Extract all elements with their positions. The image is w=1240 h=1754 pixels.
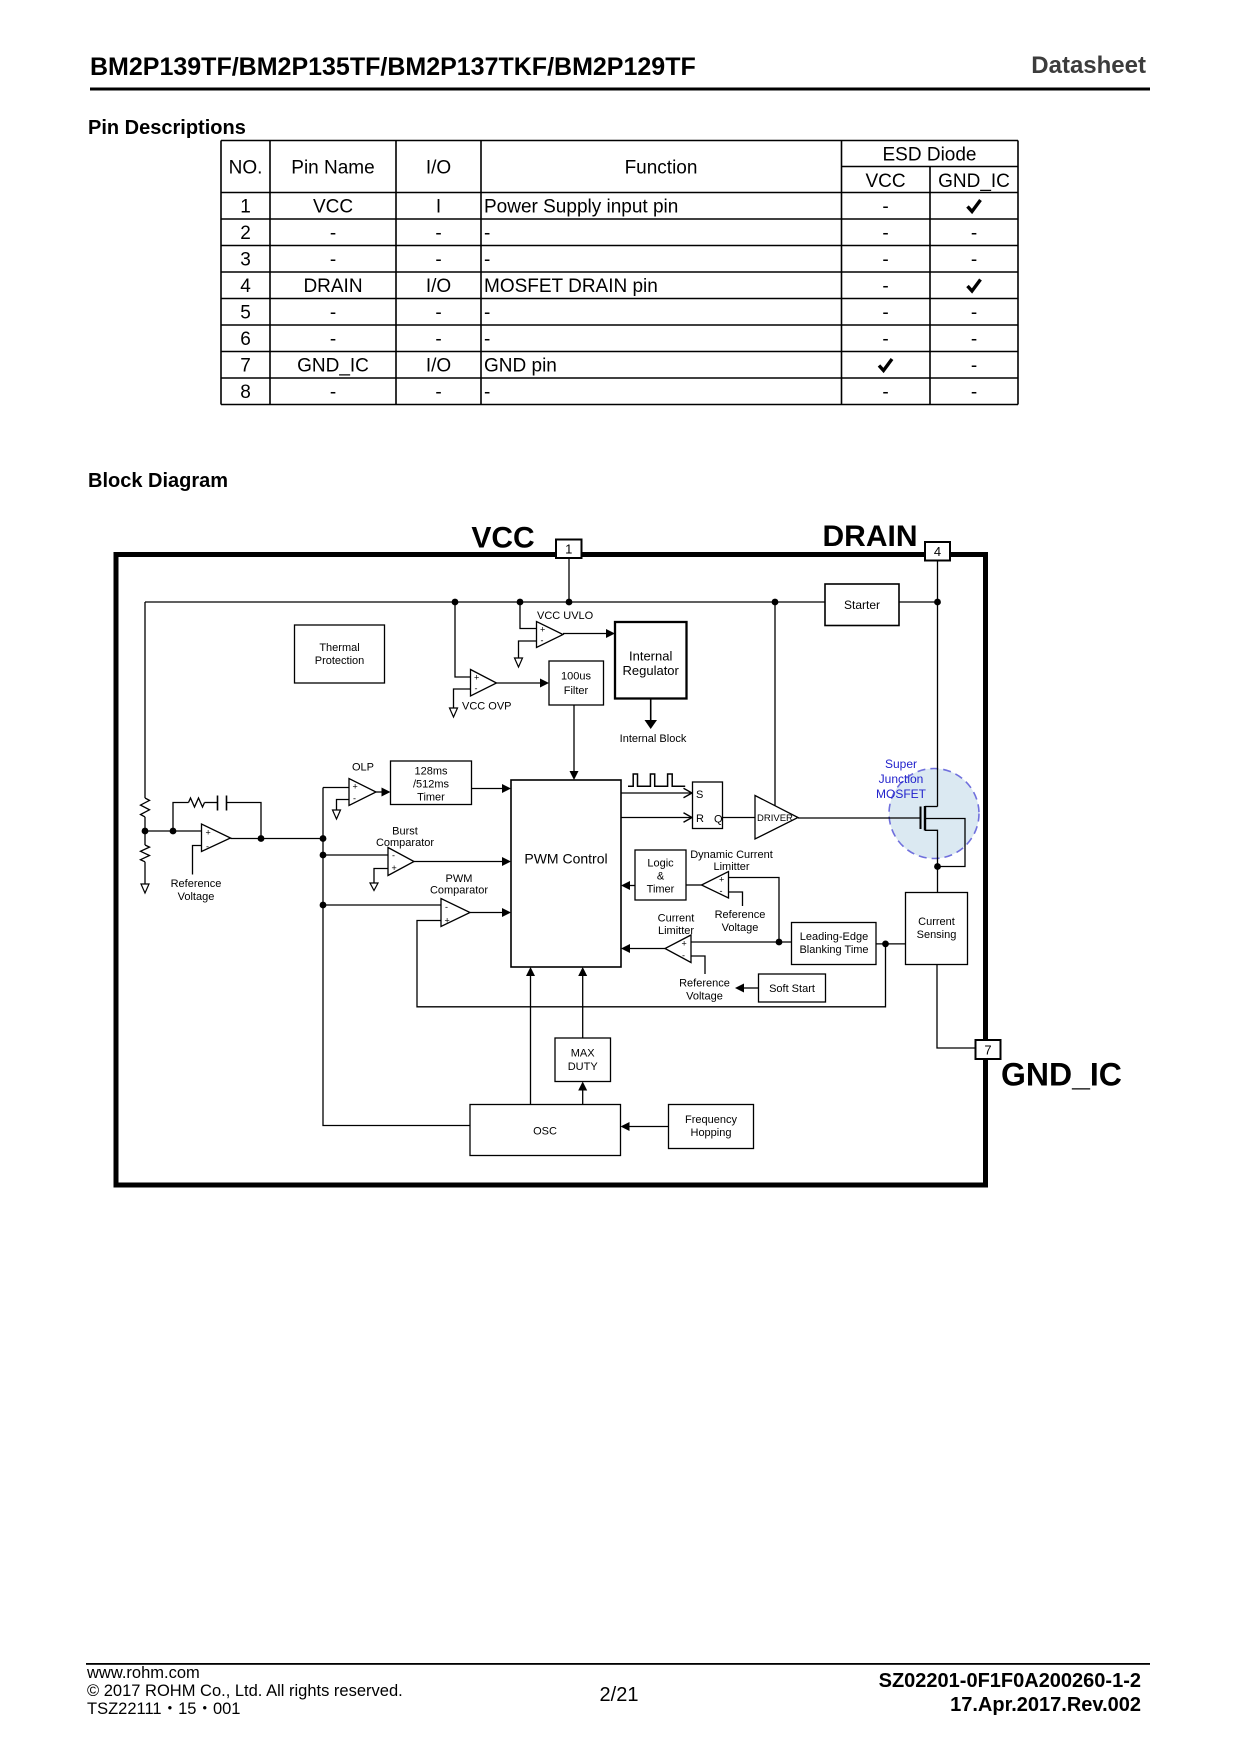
wire timer to PWM Control	[472, 784, 512, 793]
wire current sensing to pin7	[937, 965, 976, 1049]
svg-text:Starter: Starter	[844, 598, 880, 612]
svg-text:-: -	[435, 223, 441, 244]
svg-text:Internal: Internal	[629, 649, 672, 664]
vertical feedback net	[320, 788, 470, 1126]
svg-text:MOSFET: MOSFET	[876, 787, 927, 801]
svg-text:Logic: Logic	[647, 858, 674, 870]
svg-text:Super: Super	[885, 757, 917, 771]
svg-text:&: &	[657, 871, 665, 883]
svg-text:Limitter: Limitter	[658, 925, 694, 937]
wire current limiter plus input	[691, 939, 792, 946]
svg-text:Thermal: Thermal	[319, 642, 359, 654]
svg-text:-: -	[882, 250, 888, 271]
svg-text:Voltage: Voltage	[722, 922, 759, 934]
svg-text:-: -	[682, 951, 685, 961]
svg-text:Reference: Reference	[171, 878, 222, 890]
svg-text:-: -	[475, 684, 478, 694]
wire leading edge to current sensing	[876, 941, 906, 948]
128ms/512ms Timer block	[391, 761, 472, 805]
GND_IC pad label	[1001, 1057, 1122, 1093]
svg-text:VCC: VCC	[313, 197, 353, 218]
pin 7	[976, 1040, 1001, 1059]
Thermal Protection block	[295, 625, 385, 683]
comparator Dynamic Current Limitter	[690, 849, 773, 898]
error amp reference voltage input	[171, 846, 222, 904]
svg-text:-: -	[882, 329, 888, 350]
svg-text:-: -	[330, 223, 336, 244]
svg-text:Pin Name: Pin Name	[291, 158, 374, 179]
node MOSFET source junction	[934, 863, 941, 870]
svg-text:-: -	[720, 886, 723, 896]
wire burst plus to arrow	[370, 869, 388, 891]
wire burst out to PWM Control	[414, 857, 511, 866]
svg-text:-: -	[330, 250, 336, 271]
svg-text:-: -	[971, 250, 977, 271]
svg-text:DUTY: DUTY	[568, 1061, 599, 1073]
svg-text:Protection: Protection	[315, 655, 365, 667]
svg-text:GND_IC: GND_IC	[938, 171, 1010, 192]
PWM pulse symbol	[628, 774, 685, 786]
svg-text:Comparator: Comparator	[376, 837, 434, 849]
svg-text:Internal Block: Internal Block	[620, 733, 687, 745]
svg-text:-: -	[435, 329, 441, 350]
svg-text:-: -	[882, 223, 888, 244]
svg-text:100us: 100us	[561, 671, 591, 683]
svg-text:Reference: Reference	[679, 978, 730, 990]
svg-text:Reference: Reference	[715, 909, 766, 921]
svg-text:Limitter: Limitter	[713, 861, 749, 873]
svg-text:-: -	[882, 303, 888, 324]
svg-text:Blanking Time: Blanking Time	[799, 944, 868, 956]
wire dynamic limiter plus input	[729, 878, 780, 943]
svg-text:Pin Descriptions: Pin Descriptions	[88, 117, 246, 139]
wire Internal Regulator to Internal Block	[620, 699, 687, 746]
comparator OLP	[349, 762, 376, 806]
svg-text:-: -	[484, 382, 490, 403]
SR latch U	[693, 782, 724, 829]
svg-text:4: 4	[240, 276, 251, 297]
svg-text:-: -	[206, 842, 209, 852]
svg-text:Comparator: Comparator	[430, 885, 488, 897]
svg-text:Dynamic Current: Dynamic Current	[690, 849, 773, 861]
svg-text:VCC: VCC	[471, 522, 534, 555]
pin 1	[556, 540, 582, 559]
IC outer boundary box	[116, 555, 986, 1186]
svg-text:Q: Q	[714, 814, 723, 826]
svg-text:8: 8	[240, 382, 251, 403]
svg-text:TSZ22111・15・001: TSZ22111・15・001	[87, 1700, 240, 1718]
svg-text:-: -	[330, 329, 336, 350]
bus junction dots	[452, 599, 941, 606]
footer left text	[86, 1664, 403, 1718]
wire FB to error amp	[145, 830, 202, 832]
svg-text:-: -	[484, 250, 490, 271]
svg-text:17.Apr.2017.Rev.002: 17.Apr.2017.Rev.002	[950, 1694, 1141, 1716]
comparator Current Limitter	[658, 913, 695, 963]
svg-text:VCC OVP: VCC OVP	[462, 701, 512, 713]
100us Filter block	[549, 661, 604, 705]
svg-text:GND_IC: GND_IC	[1001, 1057, 1122, 1093]
Soft Start block	[759, 974, 826, 1002]
svg-text:-: -	[353, 794, 356, 804]
svg-text:-: -	[445, 902, 448, 912]
svg-text:-: -	[330, 303, 336, 324]
svg-text:ESD Diode: ESD Diode	[883, 145, 977, 166]
svg-text:+: +	[445, 916, 450, 926]
MOSFET Q1	[921, 806, 966, 893]
svg-text:MOSFET DRAIN pin: MOSFET DRAIN pin	[484, 276, 658, 297]
svg-text:www.rohm.com: www.rohm.com	[86, 1664, 200, 1682]
Internal Regulator block	[615, 622, 687, 699]
svg-text:+: +	[353, 782, 358, 792]
wire OLP minus to arrow	[333, 800, 350, 820]
comparator Burst	[376, 826, 434, 876]
svg-text:-: -	[435, 382, 441, 403]
svg-text:VCC: VCC	[865, 171, 905, 192]
svg-text:Block Diagram: Block Diagram	[88, 470, 228, 492]
svg-text:DRAIN: DRAIN	[823, 520, 918, 553]
wire frequency hopping to OSC	[621, 1122, 669, 1131]
svg-text:Datasheet: Datasheet	[1031, 52, 1146, 79]
wire latch Q to driver	[723, 817, 756, 819]
wire net to PWM comparator minus	[323, 904, 441, 906]
svg-text:-: -	[882, 197, 888, 218]
super junction MOSFET highlight circle	[889, 769, 979, 859]
wire UVLO minus input to arrow	[515, 641, 537, 667]
svg-text:R: R	[696, 813, 704, 825]
pin descriptions table grid	[221, 141, 1018, 405]
pin descriptions table body text	[240, 197, 977, 404]
wire Logic Timer to PWM Control	[621, 881, 635, 890]
wire PWM Control to latch S	[621, 788, 692, 797]
MAX DUTY block	[555, 1038, 611, 1082]
feedback divider resistor chain	[141, 602, 150, 884]
svg-text:S: S	[696, 789, 703, 801]
header title	[90, 53, 696, 81]
svg-text:/512ms: /512ms	[413, 779, 450, 791]
node FB junction	[142, 828, 177, 835]
footer page number	[600, 1684, 639, 1706]
svg-text:-: -	[541, 636, 544, 646]
svg-text:PWM: PWM	[446, 873, 473, 885]
Starter block	[825, 584, 899, 626]
svg-text:I/O: I/O	[426, 356, 451, 377]
super junction MOSFET label	[876, 757, 927, 801]
VCC bus wire	[145, 601, 938, 603]
wire net to burst minus	[323, 854, 388, 856]
pin descriptions table header text	[229, 145, 1010, 193]
svg-text:-: -	[330, 382, 336, 403]
svg-text:Timer: Timer	[417, 792, 445, 804]
svg-text:Timer: Timer	[647, 884, 675, 896]
svg-text:Leading-Edge: Leading-Edge	[800, 931, 869, 943]
svg-text:DRAIN: DRAIN	[303, 276, 362, 297]
svg-text:-: -	[882, 276, 888, 297]
svg-text:Burst: Burst	[392, 826, 418, 838]
svg-text:Function: Function	[625, 158, 698, 179]
wire MAX DUTY to PWM Control	[578, 967, 587, 1038]
wire OSC to MAX DUTY	[578, 1082, 587, 1105]
svg-text:GND pin: GND pin	[484, 356, 557, 377]
wire OLP out to timer	[376, 788, 391, 797]
svg-text:DRIVER: DRIVER	[757, 813, 793, 824]
svg-text:+: +	[474, 673, 479, 683]
svg-text:-: -	[435, 303, 441, 324]
wire OVP minus input to arrow	[450, 689, 471, 717]
divider ground arrow	[141, 884, 149, 893]
svg-text:Voltage: Voltage	[178, 891, 215, 903]
svg-text:-: -	[971, 382, 977, 403]
svg-text:Filter: Filter	[564, 685, 589, 697]
wire current limiter minus to reference	[679, 956, 730, 1003]
wire bus to UVLO plus input	[520, 602, 537, 629]
svg-text:OSC: OSC	[533, 1126, 557, 1138]
svg-text:Current: Current	[918, 916, 955, 928]
svg-text:2/21: 2/21	[600, 1684, 639, 1706]
header rule	[90, 88, 1150, 91]
OSC block	[470, 1105, 621, 1156]
svg-text:I/O: I/O	[426, 276, 451, 297]
svg-text:SZ02201-0F1F0A200260-1-2: SZ02201-0F1F0A200260-1-2	[879, 1670, 1141, 1692]
svg-text:OLP: OLP	[352, 762, 374, 774]
wire current sense to PWM comparator plus	[417, 921, 886, 1007]
svg-text:-: -	[971, 329, 977, 350]
svg-text:Regulator: Regulator	[623, 663, 680, 678]
feedback RC network	[173, 796, 261, 839]
svg-text:Soft Start: Soft Start	[769, 983, 815, 995]
svg-text:© 2017 ROHM Co., Ltd. All righ: © 2017 ROHM Co., Ltd. All rights reserve…	[87, 1682, 403, 1700]
svg-text:-: -	[435, 250, 441, 271]
svg-text:Hopping: Hopping	[691, 1127, 732, 1139]
footer rule	[86, 1663, 1150, 1665]
svg-text:7: 7	[984, 1043, 991, 1058]
svg-text:2: 2	[240, 223, 251, 244]
svg-text:NO.: NO.	[229, 158, 263, 179]
wire dynamic limiter minus to reference	[715, 892, 766, 934]
svg-text:PWM Control: PWM Control	[524, 851, 607, 867]
header Datasheet label	[1031, 52, 1146, 79]
svg-text:Voltage: Voltage	[686, 991, 723, 1003]
wire OSC to PWM Control	[526, 967, 535, 1105]
svg-text:1: 1	[240, 197, 251, 218]
svg-text:3: 3	[240, 250, 251, 271]
pin 4	[925, 542, 950, 561]
wire UVLO out to Internal Regulator	[563, 629, 615, 638]
svg-text:4: 4	[934, 544, 941, 559]
svg-text:-: -	[882, 382, 888, 403]
Frequency Hopping block	[669, 1105, 754, 1149]
svg-text:128ms: 128ms	[414, 766, 448, 778]
footer document number	[879, 1670, 1141, 1716]
comparator VCC OVP	[462, 670, 512, 713]
svg-text:5: 5	[240, 303, 251, 324]
svg-text:-: -	[392, 851, 395, 861]
comparator PWM	[430, 873, 488, 927]
driver buffer	[755, 796, 798, 840]
PWM Control block	[511, 780, 621, 967]
Leading-Edge Blanking Time block	[792, 923, 877, 965]
svg-text:+: +	[719, 875, 724, 885]
svg-text:GND_IC: GND_IC	[297, 356, 369, 377]
wire error amp output	[231, 835, 327, 842]
wire bus to driver supply	[774, 602, 776, 806]
wire soft start to reference voltage	[735, 984, 759, 993]
svg-text:1: 1	[565, 542, 572, 557]
wire PWM Control to latch R	[621, 813, 692, 822]
svg-text:Junction: Junction	[879, 772, 924, 786]
DRAIN pad label	[823, 520, 918, 553]
wire dynamic limiter out	[686, 884, 702, 886]
svg-text:-: -	[484, 223, 490, 244]
svg-text:-: -	[484, 329, 490, 350]
svg-text:-: -	[971, 223, 977, 244]
wire pin1 to VCC bus	[568, 558, 570, 602]
wire net to OLP plus	[323, 787, 349, 789]
svg-text:I: I	[436, 197, 441, 218]
svg-text:Sensing: Sensing	[917, 929, 957, 941]
wire current limiter out to PWM Control	[621, 944, 665, 953]
wire driver to MOSFET gate	[798, 817, 921, 819]
svg-text:+: +	[392, 863, 397, 873]
op-amp error amplifier	[202, 824, 231, 852]
svg-text:BM2P139TF/BM2P135TF/BM2P137TKF: BM2P139TF/BM2P135TF/BM2P137TKF/BM2P129TF	[90, 53, 696, 81]
svg-text:7: 7	[240, 356, 251, 377]
Logic & Timer block	[635, 850, 686, 900]
wire PWM comparator out to PWM Control	[470, 908, 511, 917]
comparator VCC UVLO	[537, 610, 594, 648]
wire bus to OVP plus input	[455, 602, 471, 677]
wire OVP out to 100us Filter	[497, 679, 550, 688]
Current Sensing block	[906, 893, 968, 965]
svg-text:6: 6	[240, 329, 251, 350]
svg-text:-: -	[484, 303, 490, 324]
svg-text:I/O: I/O	[426, 158, 451, 179]
wire 100us Filter to PWM Control	[570, 705, 579, 780]
VCC pad label	[471, 522, 534, 555]
svg-text:Current: Current	[658, 913, 695, 925]
svg-text:VCC UVLO: VCC UVLO	[537, 610, 594, 622]
svg-text:Frequency: Frequency	[685, 1114, 737, 1126]
svg-text:-: -	[971, 303, 977, 324]
svg-text:-: -	[971, 356, 977, 377]
svg-text:Power Supply input pin: Power Supply input pin	[484, 197, 678, 218]
Pin Descriptions heading	[88, 117, 246, 139]
svg-text:+: +	[682, 939, 687, 949]
check marks in table	[879, 200, 981, 371]
svg-text:+: +	[206, 828, 211, 838]
wire pin4 DRAIN vertical	[937, 561, 939, 807]
Block Diagram heading	[88, 470, 228, 492]
svg-text:+: +	[540, 625, 545, 635]
svg-text:MAX: MAX	[571, 1048, 596, 1060]
